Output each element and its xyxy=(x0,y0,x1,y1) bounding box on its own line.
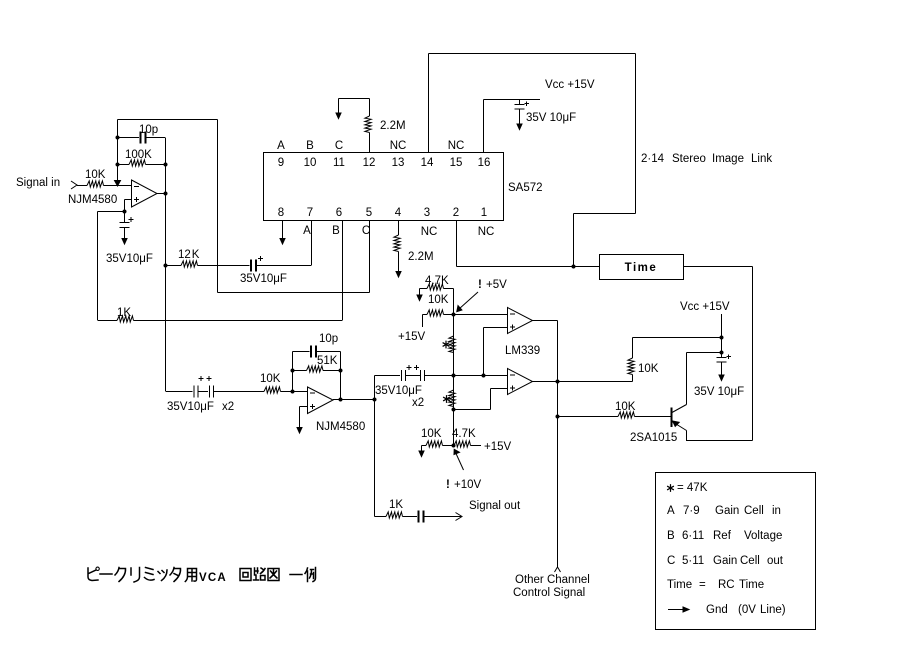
op-amp U5 NJM4580 second xyxy=(308,387,334,414)
capacitor C11 35V10uF right xyxy=(717,353,727,376)
pin plus xyxy=(510,325,515,330)
wire output vertical bus xyxy=(165,138,167,392)
svg-text:10K: 10K xyxy=(421,428,442,440)
svg-text:1: 1 xyxy=(481,207,487,219)
capacitor C2 35V10uF polarized xyxy=(120,212,130,239)
node Time block xyxy=(600,255,684,280)
wire xyxy=(420,288,428,290)
node Signal in terminal xyxy=(71,181,77,189)
svg-text:Time: Time xyxy=(667,579,692,591)
wire xyxy=(422,445,427,447)
wire to comparator 2 plus xyxy=(454,389,508,410)
wire 10p branch xyxy=(293,351,310,353)
svg-text:14: 14 xyxy=(421,157,434,169)
node other channel chevron xyxy=(555,567,561,572)
wire signal out row xyxy=(375,516,387,518)
svg-text:NC: NC xyxy=(478,226,495,238)
svg-text:10p: 10p xyxy=(319,333,338,345)
svg-text:Cell: Cell xyxy=(740,555,760,567)
svg-text:x2: x2 xyxy=(412,397,424,409)
wire pin 2 to Time box xyxy=(457,266,600,268)
node +10V arrowhead xyxy=(454,449,460,454)
wire xyxy=(471,445,482,447)
resistor R3 12K xyxy=(181,261,198,267)
svg-text:1K: 1K xyxy=(389,499,403,511)
svg-text:4: 4 xyxy=(395,207,402,219)
svg-text:Ref: Ref xyxy=(713,530,732,542)
ground xyxy=(122,239,127,245)
wire pin 12 loop xyxy=(339,99,370,114)
wire to pin 7 xyxy=(257,221,312,266)
capacitor C4 35V10uF decoupling xyxy=(515,100,525,125)
svg-text:SA572: SA572 xyxy=(508,182,543,194)
svg-text:Cell: Cell xyxy=(744,505,764,517)
wire 10p branch xyxy=(118,137,140,139)
svg-text:x2: x2 xyxy=(222,401,234,413)
wire xyxy=(146,164,166,166)
wire +10V pointer xyxy=(456,454,464,471)
svg-text:+15V: +15V xyxy=(484,441,512,453)
wire xyxy=(77,185,87,187)
svg-text:13: 13 xyxy=(392,157,405,169)
wire xyxy=(398,252,400,272)
wire Time to right rail xyxy=(684,267,753,441)
capacitor C7 C8 35V10uF x2 input pair xyxy=(194,386,264,398)
svg-text:NJM4580: NJM4580 xyxy=(68,194,117,206)
node junction xyxy=(556,380,560,384)
resistor R17 10K base xyxy=(618,412,634,418)
wire xyxy=(369,133,371,153)
resistor R5 2.2M xyxy=(394,235,400,252)
svg-text:12: 12 xyxy=(363,157,376,169)
svg-text:=: = xyxy=(699,579,706,591)
capacitor C1 10p xyxy=(141,132,146,144)
svg-text:+15V: +15V xyxy=(398,331,426,343)
svg-text:35V 10μF: 35V 10μF xyxy=(526,112,576,124)
svg-text:8: 8 xyxy=(278,207,284,219)
wire feedback vertical right xyxy=(340,352,342,400)
node legend arrowhead xyxy=(683,607,689,612)
op-amp U3 LM339 comparator A xyxy=(508,308,533,334)
svg-text:5·11: 5·11 xyxy=(682,555,704,567)
svg-text:NC: NC xyxy=(390,140,407,152)
pin plus polarity mark xyxy=(525,101,530,106)
svg-text:(0V: (0V xyxy=(738,604,756,616)
wire comparator B output xyxy=(533,381,633,383)
ground xyxy=(419,451,424,457)
ground xyxy=(297,428,302,434)
svg-text:Image: Image xyxy=(712,153,744,165)
svg-text:Other Channel: Other Channel xyxy=(515,574,590,586)
ground xyxy=(517,124,522,130)
svg-text:LM339: LM339 xyxy=(505,345,540,357)
resistor R16 10K vertical xyxy=(628,358,634,375)
wire xyxy=(403,516,418,518)
svg-text:10K: 10K xyxy=(85,169,106,181)
svg-text:Vcc +15V: Vcc +15V xyxy=(680,301,730,313)
node junction xyxy=(452,374,456,378)
op-amp U4 LM339 comparator B xyxy=(508,369,533,395)
wire pin 2 stub xyxy=(456,221,458,267)
node +5V arrowhead xyxy=(457,306,462,312)
resistor R15 1K xyxy=(386,512,403,518)
svg-text:35V 10μF: 35V 10μF xyxy=(694,386,744,398)
pin plus xyxy=(510,386,515,391)
ground xyxy=(417,295,422,301)
wire xyxy=(104,185,132,187)
wire collector pullup row xyxy=(633,338,722,359)
resistor R11 10K bottom xyxy=(426,441,443,447)
node junction xyxy=(572,265,576,269)
node junction xyxy=(291,390,295,394)
node junction xyxy=(339,369,343,373)
wire comparator A plus input xyxy=(484,328,508,376)
svg-text:6: 6 xyxy=(336,207,342,219)
svg-text:A: A xyxy=(277,140,285,152)
node junction xyxy=(116,163,120,167)
node junction xyxy=(452,408,456,412)
svg-text:+10V: +10V xyxy=(454,479,482,491)
node junction xyxy=(116,136,120,140)
svg-text:10K: 10K xyxy=(260,373,281,385)
svg-text:4.7K: 4.7K xyxy=(452,428,476,440)
svg-text:out: out xyxy=(767,555,784,567)
wire top feedback loop xyxy=(118,120,370,293)
wire xyxy=(443,445,455,447)
resistor R1 10K xyxy=(87,181,103,187)
svg-text:NC: NC xyxy=(421,226,438,238)
transistor Q1 emitter arrow xyxy=(673,421,680,426)
node junction 12K tap xyxy=(164,264,168,268)
svg-text:Stereo: Stereo xyxy=(672,153,706,165)
svg-text:NC: NC xyxy=(448,140,465,152)
svg-text:10K: 10K xyxy=(638,363,659,375)
svg-text:Gain: Gain xyxy=(715,505,739,517)
svg-text:16: 16 xyxy=(478,157,491,169)
node label star lower xyxy=(443,395,450,403)
svg-text:B: B xyxy=(667,530,675,542)
svg-text:7·9: 7·9 xyxy=(683,505,700,517)
svg-text:!: ! xyxy=(478,279,482,291)
wire plus input to ground xyxy=(300,407,308,428)
svg-text:10: 10 xyxy=(304,157,317,169)
capacitor C9 10p xyxy=(311,346,316,358)
resistor R9 47K star upper xyxy=(449,336,455,353)
wire bottom bias row left stub xyxy=(421,446,423,452)
node junction xyxy=(720,351,724,355)
svg-text:Voltage: Voltage xyxy=(744,530,782,542)
resistor R2 100K xyxy=(129,160,146,166)
wire to pin 6 xyxy=(134,221,343,321)
pin minus xyxy=(510,374,515,376)
svg-text:100K: 100K xyxy=(125,149,152,161)
svg-text:3: 3 xyxy=(424,207,430,219)
node label star upper xyxy=(443,341,450,349)
wire 100K branch xyxy=(118,164,130,166)
resistor R13 10K xyxy=(264,387,281,393)
svg-text:4.7K: 4.7K xyxy=(425,275,449,287)
wire pin 4 stub xyxy=(398,221,400,235)
svg-text:!: ! xyxy=(446,479,450,491)
svg-text:9: 9 xyxy=(278,157,284,169)
wire 1K branch xyxy=(98,320,118,322)
ground xyxy=(280,239,285,245)
wire base row xyxy=(558,416,619,418)
ground xyxy=(336,113,341,119)
wire pin 8 stub xyxy=(282,221,284,239)
wire 51K branch xyxy=(293,370,307,372)
wire xyxy=(425,516,462,518)
svg-text:2·14: 2·14 xyxy=(641,153,665,165)
wire feedback vertical xyxy=(117,120,119,186)
wire stereo link right side xyxy=(574,54,636,267)
transistor Q1 collector xyxy=(672,405,687,413)
svg-text:12K: 12K xyxy=(178,249,200,261)
svg-text:NJM4580: NJM4580 xyxy=(316,421,365,433)
svg-text:Line): Line) xyxy=(760,604,786,616)
wire xyxy=(198,265,250,267)
op-amp U1 NJM4580 xyxy=(132,180,158,207)
wire op-amp2 input from output bus xyxy=(166,391,193,393)
wire xyxy=(369,99,371,117)
svg-text:51K: 51K xyxy=(317,355,338,367)
node junction xyxy=(482,374,486,378)
pin plus polarity mark xyxy=(258,256,263,261)
pin plus polarity marks xyxy=(199,376,212,381)
wire 4.7K top row left stub xyxy=(419,289,421,296)
wire pin 16 Vcc xyxy=(484,100,541,153)
svg-text:5: 5 xyxy=(366,207,372,219)
pin minus xyxy=(134,186,139,188)
pin plus polarity mark xyxy=(129,217,134,222)
wire non-inverting input xyxy=(98,200,132,321)
wire pin 14 to top rail xyxy=(429,54,636,153)
resistor R14 51K xyxy=(307,366,324,372)
node junction xyxy=(339,398,343,402)
svg-text:B: B xyxy=(332,225,340,237)
ground xyxy=(719,375,724,381)
wire xyxy=(635,416,672,418)
svg-text:C: C xyxy=(362,225,370,237)
svg-text:35V10μF: 35V10μF xyxy=(106,253,153,265)
wire xyxy=(444,289,454,446)
svg-text:B: B xyxy=(306,140,314,152)
node signal out arrow xyxy=(456,513,463,521)
svg-text:Control Signal: Control Signal xyxy=(513,587,585,599)
wire output vertical xyxy=(374,376,376,517)
svg-text:15: 15 xyxy=(450,157,463,169)
pin minus xyxy=(510,313,515,315)
node junction xyxy=(452,444,456,448)
resistor R4 1K xyxy=(117,316,134,322)
svg-text:C: C xyxy=(335,140,343,152)
svg-text:Gnd: Gnd xyxy=(706,604,728,616)
node junction xyxy=(164,163,168,167)
resistor R8 10K xyxy=(427,310,444,316)
transistor Q1 emitter xyxy=(672,422,687,431)
pin plus polarity marks xyxy=(407,365,420,370)
node junction xyxy=(373,398,377,402)
resistor R10 47K star lower xyxy=(449,390,455,407)
svg-text:RC: RC xyxy=(718,579,735,591)
wire xyxy=(147,137,166,139)
wire Vcc stub xyxy=(721,314,723,352)
wire xyxy=(632,375,634,382)
resistor R6 2.2M xyxy=(365,116,371,133)
svg-text:A: A xyxy=(303,225,311,237)
svg-text:C: C xyxy=(667,555,675,567)
node junction base row xyxy=(556,415,560,419)
transistor Q1 2SA1015 base bar xyxy=(671,408,673,428)
svg-text:Vcc +15V: Vcc +15V xyxy=(545,79,595,91)
node junction xyxy=(291,369,295,373)
svg-text:10p: 10p xyxy=(139,124,158,136)
wire xyxy=(317,351,341,353)
svg-text:2: 2 xyxy=(453,207,459,219)
svg-text:2.2M: 2.2M xyxy=(380,120,406,132)
svg-text:Time: Time xyxy=(625,262,658,274)
wire +5V pointer xyxy=(459,292,478,309)
wire comparator B minus input xyxy=(454,375,508,377)
svg-text:2SA1015: 2SA1015 xyxy=(630,432,677,444)
svg-text:VCA: VCA xyxy=(199,572,227,584)
wire comparator A output xyxy=(533,321,558,568)
wire xyxy=(166,265,182,267)
node junction xyxy=(123,210,127,214)
node title peak limiter VCA circuit diagram example (Japanese) xyxy=(88,567,316,582)
svg-text:35V10μF: 35V10μF xyxy=(375,385,422,397)
node legend box xyxy=(656,473,816,630)
resistor R12 4.7K bottom xyxy=(454,441,471,447)
wire xyxy=(323,370,341,372)
resistor R7 4.7K xyxy=(427,284,444,290)
svg-text:Signal out: Signal out xyxy=(469,500,521,512)
svg-text:Signal in: Signal in xyxy=(16,177,60,189)
svg-text:in: in xyxy=(772,505,781,517)
wire legend gnd arrow xyxy=(668,609,683,611)
capacitor C10 output coupling xyxy=(419,511,424,523)
svg-text:= 47K: = 47K xyxy=(677,482,708,494)
wire feedback vertical left xyxy=(292,352,294,392)
pin plus polarity mark xyxy=(727,354,732,359)
svg-text:10K: 10K xyxy=(615,401,636,413)
svg-text:7: 7 xyxy=(307,207,313,219)
wire collector link xyxy=(687,353,722,405)
capacitor C3 35V10uF series xyxy=(251,260,256,272)
node junction output xyxy=(164,192,168,196)
node op-amp U1 inverting input junction xyxy=(115,181,121,187)
svg-text:Link: Link xyxy=(751,153,772,165)
svg-text:Gain: Gain xyxy=(713,555,737,567)
svg-text:6·11: 6·11 xyxy=(682,530,704,542)
pin plus xyxy=(310,404,315,409)
wire xyxy=(281,391,308,393)
svg-text:10K: 10K xyxy=(428,294,449,306)
wire op-amp2 output xyxy=(333,399,375,401)
svg-text:A: A xyxy=(667,505,675,517)
ground xyxy=(396,272,401,278)
svg-text:Time: Time xyxy=(739,579,764,591)
svg-text:35V10μF: 35V10μF xyxy=(167,401,214,413)
node legend star = 47K xyxy=(667,484,674,492)
pin minus xyxy=(310,392,315,394)
node junction xyxy=(720,336,724,340)
pin plus xyxy=(134,197,139,202)
wire pin 5 stub xyxy=(369,221,371,293)
svg-text:+5V: +5V xyxy=(486,279,507,291)
wire emitter down xyxy=(686,431,688,441)
wire to comparator minus xyxy=(444,314,508,316)
svg-text:35V10μF: 35V10μF xyxy=(240,273,287,285)
capacitor C5 C6 35V10uF x2 coupling pair xyxy=(375,370,454,381)
node junction xyxy=(452,313,456,317)
wire 10K row xyxy=(423,315,428,328)
wire op-amp output xyxy=(157,193,165,195)
svg-text:11: 11 xyxy=(333,157,345,169)
svg-text:2.2M: 2.2M xyxy=(408,251,434,263)
op-amp U2 SA572 IC body xyxy=(264,153,504,221)
svg-text:1K: 1K xyxy=(117,307,131,319)
